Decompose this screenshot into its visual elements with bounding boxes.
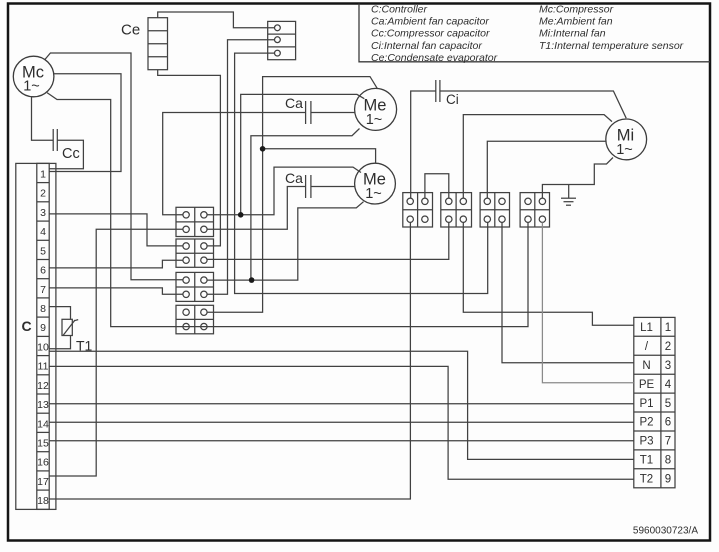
wire Ca1 left to TB1 row1 left [163, 113, 306, 215]
wire controller 7 to TB3 row2 left [49, 288, 183, 294]
wire TBA top-right bridge to TBB top-left [425, 174, 449, 198]
terminal block TB3 [176, 272, 214, 301]
wire Mc top to TB3 row1 left [45, 53, 184, 280]
wire TB0 pin3 to TBC bottom-left [235, 53, 488, 293]
svg-text:14: 14 [37, 418, 49, 430]
svg-text:C:Controller: C:Controller [371, 3, 428, 15]
wire controller 13 to P1 [49, 403, 634, 405]
wire controller 11 to T2 terminal [49, 366, 634, 479]
svg-text:P1: P1 [639, 398, 653, 410]
svg-text:T1:Internal temperature sensor: T1:Internal temperature sensor [539, 40, 684, 52]
svg-text:11: 11 [38, 361, 49, 373]
wire TB1 row2 right to Ca2 [207, 187, 306, 230]
svg-text:8: 8 [665, 455, 671, 467]
svg-text:4: 4 [665, 379, 672, 391]
svg-text:Ca: Ca [285, 95, 303, 111]
svg-text:16: 16 [37, 457, 49, 469]
controller terminal strip C [16, 163, 56, 509]
wire Ci right to Mi top [440, 91, 626, 118]
wire TB0 pin2 to TB3 row2 right [207, 40, 274, 295]
svg-text:/: / [645, 341, 649, 353]
motor Me1 (ambient fan, upper) [355, 88, 397, 130]
svg-text:1~: 1~ [365, 186, 382, 202]
terminal block TB0 (3-pole, top) [268, 21, 296, 59]
wire TB3 row1 right to Me2 bottom [207, 202, 363, 280]
svg-text:Mi:Internal fan: Mi:Internal fan [539, 28, 606, 40]
svg-text:Ci:Internal fan capacitor: Ci:Internal fan capacitor [371, 40, 482, 52]
legend text column 1 [371, 3, 498, 64]
svg-text:L1: L1 [640, 322, 653, 334]
svg-text:3: 3 [665, 360, 671, 372]
svg-text:1: 1 [665, 322, 671, 334]
capacitor Ca1 [285, 95, 311, 124]
svg-text:Ca: Ca [285, 170, 303, 186]
terminal block TBC [480, 193, 509, 227]
wire Ci left to TBA top-left [411, 91, 436, 198]
svg-text:Ce: Ce [121, 22, 140, 39]
wire T1 to controller 10 [49, 336, 70, 349]
svg-text:Me:Ambient fan: Me:Ambient fan [539, 16, 613, 28]
svg-text:Ca:Ambient fan capacitor: Ca:Ambient fan capacitor [371, 16, 489, 28]
terminal block TB4 [176, 305, 214, 334]
svg-text:P2: P2 [639, 417, 653, 429]
terminal block TB2 [176, 239, 214, 267]
svg-text:1~: 1~ [616, 142, 633, 158]
svg-text:13: 13 [37, 399, 49, 411]
wire controller 8 to T1 [49, 307, 70, 320]
motor Mc [13, 56, 54, 97]
capacitor Ca2 [285, 170, 311, 198]
wire Me1 bottom to TB3 row1 wire [251, 129, 360, 281]
wire Cc right plate to controller 1 [49, 140, 83, 169]
legend box [359, 4, 710, 62]
legend text column 2 [539, 3, 684, 52]
svg-text:9: 9 [40, 322, 46, 334]
wire Me1 loop branch to Me2 top [263, 149, 376, 164]
svg-text:P3: P3 [639, 436, 653, 448]
wire controller 3 to TB2 row1 left [49, 214, 183, 246]
wire TB2 row2 right to TBB bottom-left [207, 222, 449, 259]
svg-text:T2: T2 [640, 474, 653, 486]
svg-text:1~: 1~ [366, 112, 383, 128]
thermistor T1 [62, 319, 93, 353]
svg-text:C: C [21, 318, 31, 334]
ground [561, 198, 576, 205]
wire controller 10 to T1 terminal [49, 351, 634, 459]
controller strip cell dividers and numbers 1-18 [37, 169, 49, 508]
svg-text:7: 7 [665, 436, 671, 448]
wire ground stub [568, 185, 570, 199]
svg-text:5: 5 [40, 245, 46, 257]
svg-text:5960030723/A: 5960030723/A [633, 526, 698, 537]
wire Me1 top loop [207, 77, 377, 313]
svg-text:Ci: Ci [446, 92, 459, 107]
svg-text:18: 18 [37, 495, 49, 507]
wire Ca2 right to Me2 [311, 186, 355, 188]
wire TBD top-right to ground junction [542, 158, 613, 199]
wire Ca1 right to Me1 [311, 112, 355, 114]
junction dot B [249, 277, 255, 283]
terminal block TB1 [176, 207, 214, 236]
junction dot C [260, 146, 266, 152]
supply strip rows L1 / N PE P1 P2 P3 T1 T2 [634, 322, 675, 486]
svg-text:PE: PE [639, 379, 655, 391]
svg-text:8: 8 [40, 303, 46, 315]
svg-text:Ce:Condensate evaporator: Ce:Condensate evaporator [371, 52, 498, 64]
svg-text:7: 7 [40, 284, 46, 296]
junction dot A [238, 212, 244, 218]
wire Ce top to TB0 pin1 [158, 12, 275, 28]
terminal block TBA [403, 193, 433, 227]
svg-text:9: 9 [665, 474, 671, 486]
svg-text:15: 15 [37, 438, 49, 450]
svg-text:Cc:Compressor capacitor: Cc:Compressor capacitor [371, 28, 490, 40]
svg-text:N: N [642, 360, 650, 372]
svg-text:2: 2 [665, 341, 671, 353]
capacitor Ci [436, 80, 459, 107]
wire controller 14 to P2 [49, 421, 634, 423]
svg-text:6: 6 [40, 265, 46, 277]
terminal block TBB [441, 193, 472, 227]
wire TBD bottom-right to PE [542, 222, 633, 382]
svg-text:3: 3 [40, 207, 46, 219]
svg-text:6: 6 [665, 417, 671, 429]
svg-text:Mc:Compressor: Mc:Compressor [539, 3, 614, 15]
motor Me2 (ambient fan, lower) [355, 163, 396, 204]
wire TB1 row1 right to Me2 upper-left [207, 167, 361, 215]
svg-text:2: 2 [40, 188, 46, 200]
svg-text:1: 1 [40, 169, 46, 181]
wire controller 17 to TB1 row2 left [49, 229, 183, 476]
wire Mc lower to TBD bottom-left via controller row [47, 93, 528, 327]
wire controller 6 to TB2 row2 left [49, 260, 183, 268]
svg-text:10: 10 [37, 341, 49, 353]
svg-text:4: 4 [40, 226, 46, 238]
svg-text:Cc: Cc [62, 146, 80, 162]
wire TBB bottom-right to L1 [463, 222, 634, 325]
wire TBA bottom-left to controller 18 [49, 222, 410, 499]
motor Mi (internal fan) [606, 119, 647, 160]
capacitor Cc [53, 129, 80, 162]
wire Me1 upper-left to TB1 row1 wire [241, 94, 365, 214]
svg-text:T1: T1 [640, 455, 653, 467]
svg-text:17: 17 [37, 476, 49, 488]
supply terminal strip [634, 317, 675, 487]
wire Ce bottom to TB2 row1 right [158, 70, 221, 246]
svg-text:5: 5 [665, 398, 671, 410]
svg-text:1~: 1~ [23, 79, 40, 95]
wire TBB top-right to Mi upper-left [463, 115, 612, 199]
wire TBC bottom-right to N [502, 222, 634, 362]
wire Mc bottom to Cc [32, 97, 54, 141]
wire controller 15 to P3 [49, 440, 634, 442]
wire TBC top-left to Mi left [487, 141, 606, 198]
wire Mc middle to controller 1 [49, 74, 121, 172]
terminal block TBD [520, 193, 549, 227]
svg-text:12: 12 [37, 380, 49, 392]
condensate evaporator Ce [121, 18, 168, 70]
